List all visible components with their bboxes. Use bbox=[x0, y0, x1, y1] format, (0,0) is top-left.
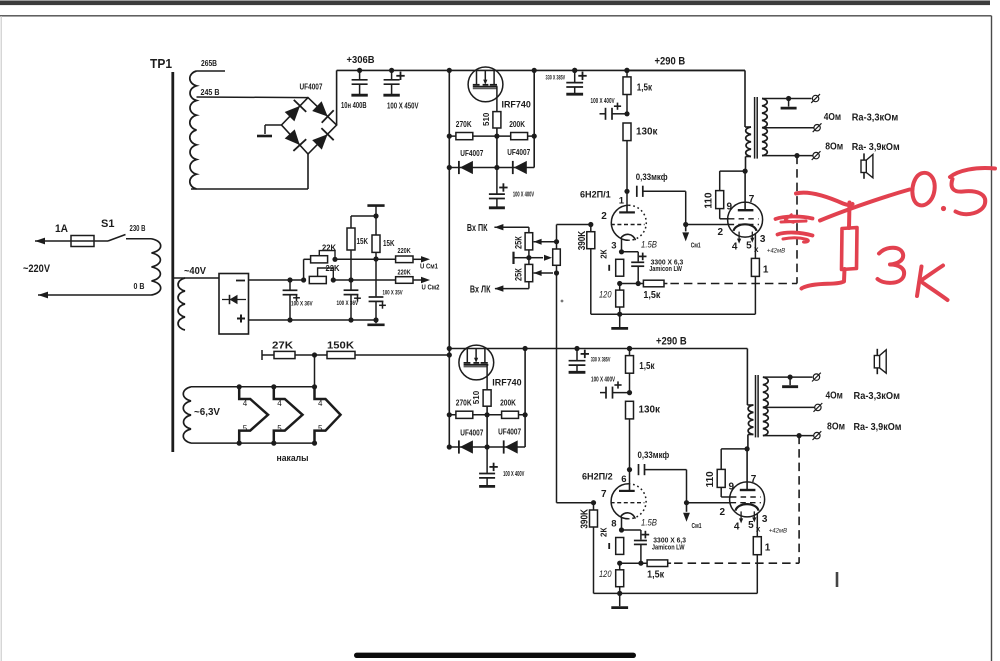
svg-text:22K: 22K bbox=[326, 264, 340, 273]
svg-text:Jamicon LW: Jamicon LW bbox=[652, 544, 685, 551]
svg-text:3: 3 bbox=[762, 514, 768, 525]
svg-text:+306В: +306В bbox=[347, 55, 375, 66]
svg-text:1: 1 bbox=[619, 195, 625, 206]
svg-text:120: 120 bbox=[599, 569, 612, 579]
svg-text:UF4007: UF4007 bbox=[507, 148, 530, 157]
svg-text:~40V: ~40V bbox=[184, 266, 206, 277]
svg-text:3: 3 bbox=[760, 234, 766, 245]
svg-text:~6,3V: ~6,3V bbox=[194, 407, 220, 418]
svg-text:130к: 130к bbox=[639, 405, 661, 416]
svg-text:100 X 400V: 100 X 400V bbox=[591, 98, 615, 105]
svg-text:4: 4 bbox=[277, 399, 282, 408]
svg-text:накалы: накалы bbox=[277, 453, 309, 463]
svg-text:2К: 2К bbox=[600, 528, 609, 537]
svg-text:270K: 270K bbox=[456, 399, 472, 408]
svg-text:390K: 390K bbox=[577, 230, 588, 250]
svg-text:15K: 15K bbox=[383, 239, 395, 248]
svg-text:0,33мкф: 0,33мкф bbox=[638, 450, 670, 460]
svg-text:25К: 25К bbox=[514, 268, 524, 281]
svg-text:ТР1: ТР1 bbox=[150, 57, 172, 71]
svg-text:UF4007: UF4007 bbox=[460, 149, 483, 158]
svg-text:100 X 400V: 100 X 400V bbox=[503, 471, 524, 478]
svg-text:+42мВ: +42мВ bbox=[769, 527, 788, 534]
svg-text:6Н2П/2: 6Н2П/2 bbox=[582, 472, 613, 482]
svg-text:5: 5 bbox=[318, 424, 323, 433]
svg-text:Ra- 3,9кОм: Ra- 3,9кОм bbox=[854, 422, 902, 433]
svg-text:S1: S1 bbox=[101, 218, 114, 230]
svg-text:7: 7 bbox=[601, 489, 607, 500]
svg-text:2К: 2К bbox=[600, 249, 609, 258]
svg-text:1,5к: 1,5к bbox=[647, 569, 665, 581]
svg-text:2: 2 bbox=[718, 227, 724, 238]
svg-text:Ra- 3,9кОм: Ra- 3,9кОм bbox=[852, 142, 900, 153]
svg-text:x: x bbox=[756, 525, 761, 534]
svg-text:9: 9 bbox=[729, 481, 735, 492]
svg-text:100 X 36V: 100 X 36V bbox=[291, 302, 313, 308]
svg-text:1,5к: 1,5к bbox=[637, 82, 653, 93]
svg-text:Cм1: Cм1 bbox=[691, 242, 701, 249]
svg-text:100 X 400V: 100 X 400V bbox=[513, 192, 534, 199]
svg-text:U См1: U См1 bbox=[420, 262, 438, 271]
svg-text:1.5В: 1.5В bbox=[641, 518, 657, 528]
svg-text:Вх ПК: Вх ПК bbox=[467, 223, 488, 234]
svg-text:~220V: ~220V bbox=[23, 263, 51, 275]
svg-text:1,5к: 1,5к bbox=[643, 289, 661, 301]
svg-text:+290 В: +290 В bbox=[655, 56, 686, 68]
svg-text:7: 7 bbox=[751, 474, 757, 485]
svg-text:5: 5 bbox=[746, 240, 752, 251]
svg-text:150K: 150K bbox=[327, 340, 354, 352]
svg-text:+290 В: +290 В bbox=[656, 336, 687, 348]
svg-text:120: 120 bbox=[599, 290, 612, 300]
svg-text:UF4007: UF4007 bbox=[460, 429, 483, 438]
svg-text:200K: 200K bbox=[509, 120, 525, 129]
svg-text:IRF740: IRF740 bbox=[502, 99, 531, 110]
svg-text:5: 5 bbox=[277, 424, 282, 433]
svg-text:200K: 200K bbox=[500, 399, 516, 408]
svg-text:27K: 27K bbox=[272, 341, 294, 352]
svg-text:510: 510 bbox=[482, 112, 491, 126]
svg-text:IRF740: IRF740 bbox=[492, 378, 521, 389]
svg-text:8: 8 bbox=[611, 519, 616, 530]
svg-text:1: 1 bbox=[763, 264, 769, 275]
svg-text:25К: 25К bbox=[514, 236, 524, 249]
svg-text:110: 110 bbox=[705, 471, 716, 488]
svg-text:Jamicon LW: Jamicon LW bbox=[649, 266, 682, 273]
svg-text:4Ом: 4Ом bbox=[826, 391, 843, 402]
svg-text:330 X 385V: 330 X 385V bbox=[546, 75, 566, 81]
svg-text:220K: 220K bbox=[398, 246, 412, 255]
svg-text:2: 2 bbox=[601, 211, 607, 222]
svg-text:1: 1 bbox=[765, 543, 771, 554]
svg-text:Ra-3,3кОм: Ra-3,3кОм bbox=[854, 391, 901, 402]
svg-text:3: 3 bbox=[611, 240, 616, 251]
svg-text:5: 5 bbox=[243, 424, 248, 433]
svg-text:330 X 385V: 330 X 385V bbox=[591, 358, 611, 364]
svg-text:220K: 220K bbox=[398, 268, 412, 277]
svg-text:100 X 36V: 100 X 36V bbox=[337, 301, 359, 307]
svg-text:510: 510 bbox=[472, 390, 481, 404]
svg-text:6: 6 bbox=[621, 474, 626, 485]
svg-text:22K: 22K bbox=[322, 243, 336, 252]
svg-text:0,33мкф: 0,33мкф bbox=[636, 172, 668, 182]
svg-text:2: 2 bbox=[720, 507, 726, 518]
svg-text:110: 110 bbox=[704, 192, 715, 209]
svg-text:15K: 15K bbox=[357, 237, 369, 246]
svg-text:x: x bbox=[754, 245, 759, 254]
svg-text:100 X 450V: 100 X 450V bbox=[387, 102, 419, 111]
svg-text:U См2: U См2 bbox=[422, 283, 440, 292]
svg-text:1.5В: 1.5В bbox=[641, 239, 657, 249]
svg-text:245 В: 245 В bbox=[201, 88, 220, 97]
svg-text:7: 7 bbox=[749, 194, 755, 205]
svg-text:4: 4 bbox=[732, 242, 738, 253]
svg-text:UF4007: UF4007 bbox=[300, 83, 323, 92]
svg-text:6Н2П/1: 6Н2П/1 bbox=[580, 190, 611, 200]
svg-text:Ra-3,3кОм: Ra-3,3кОм bbox=[852, 113, 899, 124]
svg-text:4: 4 bbox=[243, 399, 248, 408]
svg-text:Вх ЛК: Вх ЛК bbox=[470, 284, 491, 295]
svg-text:8Ом: 8Ом bbox=[827, 421, 845, 432]
svg-text:8Ом: 8Ом bbox=[825, 142, 843, 153]
svg-text:4: 4 bbox=[734, 521, 740, 532]
svg-text:130к: 130к bbox=[636, 126, 658, 137]
svg-text:Cм1: Cм1 bbox=[692, 523, 702, 530]
svg-text:265В: 265В bbox=[201, 59, 217, 68]
svg-text:100 X 400V: 100 X 400V bbox=[591, 377, 615, 384]
svg-text:4: 4 bbox=[318, 399, 323, 408]
svg-text:0 В: 0 В bbox=[134, 282, 145, 291]
svg-text:100 X 35V: 100 X 35V bbox=[383, 290, 403, 296]
svg-text:1,5к: 1,5к bbox=[639, 361, 655, 372]
svg-text:UF4007: UF4007 bbox=[498, 428, 521, 437]
svg-text:+42мВ: +42мВ bbox=[767, 248, 786, 255]
svg-text:9: 9 bbox=[727, 202, 733, 213]
svg-text:270K: 270K bbox=[456, 120, 472, 129]
svg-text:390K: 390K bbox=[580, 508, 591, 528]
svg-text:5: 5 bbox=[748, 520, 754, 531]
svg-text:1A: 1A bbox=[55, 223, 68, 235]
svg-text:10н 400В: 10н 400В bbox=[341, 101, 367, 110]
svg-text:230 В: 230 В bbox=[130, 224, 146, 233]
svg-text:4Ом: 4Ом bbox=[824, 112, 841, 123]
